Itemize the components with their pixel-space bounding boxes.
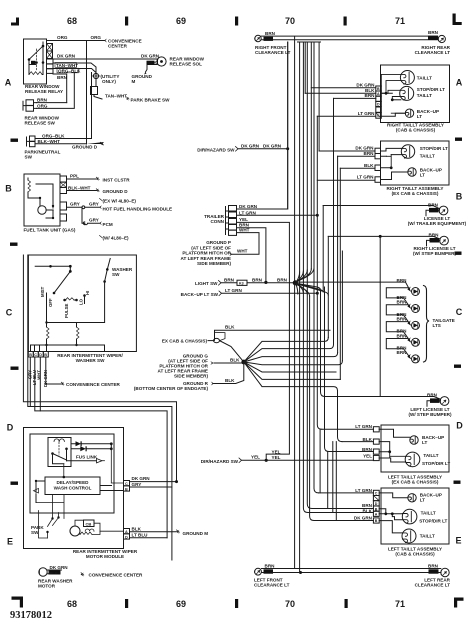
svg-text:CLEARANCE LT: CLEARANCE LT [415, 50, 451, 55]
svg-text:C: C [6, 308, 13, 318]
svg-text:LT: LT [417, 114, 422, 119]
svg-text:BRN: BRN [362, 447, 373, 452]
svg-text:STOP/DIR LT: STOP/DIR LT [420, 146, 448, 151]
svg-text:BRN: BRN [252, 277, 263, 282]
svg-text:BRN: BRN [57, 75, 68, 80]
svg-text:PULSE: PULSE [64, 304, 69, 318]
svg-text:DK GRN: DK GRN [241, 143, 260, 148]
svg-text:LT GRN: LT GRN [357, 175, 374, 180]
svg-text:PLATFORM HITCH OR: PLATFORM HITCH OR [182, 251, 231, 256]
svg-text:68: 68 [67, 599, 77, 609]
svg-text:FUEL TANK UNIT (GAS): FUEL TANK UNIT (GAS) [24, 228, 76, 233]
svg-text:93178012: 93178012 [10, 610, 52, 621]
svg-text:YEL: YEL [272, 455, 281, 460]
svg-text:BRN: BRN [239, 222, 250, 227]
svg-text:WHT: WHT [239, 228, 250, 233]
svg-text:SW: SW [112, 272, 120, 277]
svg-text:LT GRN: LT GRN [358, 111, 375, 116]
svg-text:BLK–WHT: BLK–WHT [38, 139, 61, 144]
svg-text:BRN: BRN [397, 278, 408, 283]
svg-text:DK GRN: DK GRN [239, 204, 258, 209]
svg-text:MOTOR: MOTOR [38, 584, 56, 589]
svg-text:CLEARANCE LT: CLEARANCE LT [415, 583, 451, 588]
svg-text:BLK: BLK [148, 60, 158, 65]
svg-text:A: A [377, 92, 380, 96]
svg-text:B: B [44, 353, 47, 357]
svg-text:B: B [375, 507, 378, 511]
svg-text:LT: LT [420, 173, 425, 178]
svg-text:BRN: BRN [428, 564, 439, 569]
svg-text:CONVENIENCE CENTER: CONVENIENCE CENTER [89, 573, 144, 578]
svg-text:SIDE MEMBER): SIDE MEMBER) [197, 261, 231, 266]
svg-text:D: D [375, 502, 378, 506]
svg-text:LT GRN: LT GRN [355, 488, 372, 493]
svg-text:BRN: BRN [429, 232, 440, 237]
svg-text:LT GRN: LT GRN [225, 288, 242, 293]
svg-text:BRN: BRN [224, 277, 235, 282]
svg-text:EX CAB & CHASSIS): EX CAB & CHASSIS) [162, 339, 208, 344]
svg-text:A: A [125, 530, 128, 534]
svg-text:C: C [377, 114, 380, 118]
svg-text:LT GRN: LT GRN [355, 424, 372, 429]
svg-text:STOP/DIR LT: STOP/DIR LT [419, 519, 447, 524]
svg-text:D: D [39, 353, 42, 357]
svg-text:B: B [5, 184, 12, 194]
svg-text:68: 68 [67, 16, 77, 26]
svg-text:GRY: GRY [89, 218, 99, 223]
svg-text:LIGHT SW: LIGHT SW [195, 281, 218, 286]
svg-text:BRN: BRN [364, 151, 375, 156]
svg-text:B: B [29, 353, 32, 357]
svg-text:DK GRN: DK GRN [263, 143, 282, 148]
svg-text:BRN: BRN [37, 98, 48, 103]
svg-text:SW: SW [31, 530, 39, 535]
svg-text:STOP/DIR LT: STOP/DIR LT [422, 461, 450, 466]
svg-text:DK GRN: DK GRN [132, 476, 151, 481]
svg-text:CONVENIENCE CENTER: CONVENIENCE CENTER [66, 382, 121, 387]
svg-text:DK GRN: DK GRN [57, 54, 76, 59]
svg-text:DELAY/SPEED: DELAY/SPEED [57, 480, 90, 485]
svg-text:TAILLT: TAILLT [421, 511, 436, 516]
svg-text:DK GRN: DK GRN [50, 565, 69, 570]
svg-text:C: C [456, 307, 463, 317]
svg-text:OFF: OFF [48, 298, 53, 307]
svg-text:LTS: LTS [433, 323, 441, 328]
svg-text:BRN: BRN [397, 350, 408, 355]
svg-text:DIR/HAZARD SW: DIR/HAZARD SW [197, 147, 235, 152]
svg-text:BLK: BLK [364, 163, 374, 168]
svg-text:WHT: WHT [237, 249, 248, 254]
svg-text:A: A [456, 78, 463, 88]
svg-text:A: A [375, 513, 378, 517]
svg-text:RELEASE SOL: RELEASE SOL [170, 62, 203, 67]
svg-text:E: E [455, 536, 461, 546]
svg-text:BLK: BLK [363, 437, 373, 442]
svg-text:GRY: GRY [132, 482, 142, 487]
svg-text:ORG: ORG [37, 103, 48, 108]
svg-text:TAILLT: TAILLT [417, 76, 432, 81]
svg-text:INST CLSTR: INST CLSTR [103, 178, 131, 183]
svg-text:(W/ TRAILER EQUIPMENT): (W/ TRAILER EQUIPMENT) [408, 221, 467, 226]
svg-text:MOTOR MODULE: MOTOR MODULE [86, 554, 124, 559]
svg-text:SW: SW [25, 155, 33, 160]
svg-text:ONLY): ONLY) [102, 79, 116, 84]
svg-text:RELEASE RELAY: RELEASE RELAY [25, 89, 63, 94]
svg-text:BLK–WHT: BLK–WHT [68, 186, 91, 191]
svg-text:M: M [132, 79, 136, 84]
svg-text:PPL: PPL [70, 174, 79, 179]
svg-text:BRN: BRN [365, 93, 376, 98]
svg-text:TAILLT: TAILLT [423, 453, 438, 458]
svg-text:LT: LT [422, 440, 427, 445]
svg-text:BRN: BRN [428, 30, 439, 35]
svg-text:TAILLT: TAILLT [417, 93, 432, 98]
svg-text:YEL: YEL [272, 449, 281, 454]
svg-text:GRY: GRY [70, 202, 80, 207]
svg-text:D: D [456, 421, 463, 431]
svg-text:ORG–BLK: ORG–BLK [42, 133, 65, 138]
svg-text:BRN: BRN [427, 393, 438, 398]
svg-text:DK GRN: DK GRN [141, 54, 160, 59]
svg-text:CLEARANCE LT: CLEARANCE LT [255, 50, 291, 55]
svg-text:BRN: BRN [397, 317, 408, 322]
svg-text:WASH CONTROL: WASH CONTROL [54, 486, 92, 491]
svg-text:TAN–WHT: TAN–WHT [56, 63, 78, 68]
svg-text:(EX CAB & CHASSIS): (EX CAB & CHASSIS) [392, 480, 439, 485]
svg-text:GROUND M: GROUND M [183, 531, 209, 536]
svg-text:LT BLU: LT BLU [132, 533, 149, 538]
svg-text:C: C [125, 482, 128, 486]
svg-text:LT GRN: LT GRN [239, 210, 256, 215]
svg-text:71: 71 [395, 599, 405, 609]
svg-text:(EX W/ 4L80–E): (EX W/ 4L80–E) [103, 199, 137, 204]
svg-text:BLK: BLK [225, 325, 235, 330]
svg-text:AT LEFT REAR FRAME: AT LEFT REAR FRAME [181, 256, 231, 261]
svg-text:SIDE MEMBER): SIDE MEMBER) [174, 373, 208, 378]
svg-text:C: C [34, 353, 37, 357]
svg-text:LO: LO [79, 298, 84, 305]
svg-text:FUS LINK: FUS LINK [76, 455, 98, 460]
svg-text:GROUND P: GROUND P [206, 240, 231, 245]
svg-text:HI: HI [85, 291, 90, 295]
svg-text:B: B [456, 192, 463, 202]
svg-text:CONN: CONN [210, 219, 224, 224]
svg-text:ORG–BLK: ORG–BLK [58, 68, 81, 73]
svg-text:BLK: BLK [225, 378, 235, 383]
svg-text:WASHER SW: WASHER SW [76, 358, 106, 363]
svg-text:BLK: BLK [50, 570, 58, 575]
svg-text:TAILLT: TAILLT [420, 534, 435, 539]
svg-text:(BOTTOM CENTER OF ENDGATE): (BOTTOM CENTER OF ENDGATE) [134, 386, 209, 391]
svg-text:BRN: BRN [397, 334, 408, 339]
svg-text:BLK: BLK [363, 508, 373, 513]
svg-text:69: 69 [176, 599, 186, 609]
svg-text:(CAB & CHASSIS): (CAB & CHASSIS) [395, 552, 435, 557]
svg-text:BACK–UP LT SW: BACK–UP LT SW [181, 292, 219, 297]
svg-text:BRN: BRN [428, 202, 439, 207]
svg-text:D: D [377, 103, 380, 107]
svg-text:DIR/HAZARD SW: DIR/HAZARD SW [201, 459, 239, 464]
svg-text:MIST: MIST [40, 286, 45, 297]
svg-text:LT: LT [420, 498, 425, 503]
svg-text:BRN: BRN [265, 31, 276, 36]
svg-text:A: A [5, 78, 12, 88]
svg-text:BRN: BRN [397, 300, 408, 305]
svg-text:C: C [375, 492, 378, 496]
svg-text:CB: CB [86, 522, 92, 527]
svg-text:BRN: BRN [265, 563, 276, 568]
svg-text:PCM: PCM [103, 222, 113, 227]
svg-text:YEL: YEL [363, 453, 372, 458]
svg-text:B: B [377, 87, 380, 91]
svg-text:E: E [7, 537, 13, 547]
svg-text:CENTER: CENTER [108, 44, 128, 49]
svg-text:(W/ STEP BUMPER): (W/ STEP BUMPER) [413, 251, 457, 256]
svg-text:K3: K3 [239, 281, 244, 285]
svg-text:71: 71 [395, 16, 405, 26]
svg-text:B: B [375, 519, 378, 523]
svg-text:DK GRN: DK GRN [354, 516, 373, 521]
svg-text:B: B [125, 487, 128, 491]
svg-text:GROUND D: GROUND D [72, 145, 98, 150]
svg-text:(AT LEFT SIDE OF: (AT LEFT SIDE OF [191, 245, 231, 250]
svg-text:HOT FUEL HANDLING MODULE: HOT FUEL HANDLING MODULE [103, 207, 173, 212]
svg-text:(CAB & CHASSIS): (CAB & CHASSIS) [396, 128, 436, 133]
svg-text:DK GRN: DK GRN [356, 83, 375, 88]
svg-text:BRN: BRN [277, 277, 288, 282]
svg-text:YEL: YEL [251, 454, 260, 459]
svg-text:PARK BRAKE SW: PARK BRAKE SW [131, 98, 171, 103]
svg-text:STOP/DIR LT: STOP/DIR LT [417, 87, 445, 92]
svg-text:ORG: ORG [57, 35, 68, 40]
svg-text:RELEASE SW: RELEASE SW [25, 121, 56, 126]
svg-text:CLEARANCE LT: CLEARANCE LT [254, 583, 290, 588]
svg-text:(W/ STEP BUMPER): (W/ STEP BUMPER) [408, 412, 452, 417]
svg-text:(EX CAB & CHASSIS): (EX CAB & CHASSIS) [392, 191, 439, 196]
svg-text:GROUND D: GROUND D [103, 189, 129, 194]
svg-text:BLK: BLK [230, 357, 240, 362]
svg-text:ORG: ORG [91, 35, 102, 40]
svg-text:DK GRN: DK GRN [355, 146, 374, 151]
svg-text:GRY: GRY [89, 202, 99, 207]
svg-text:69: 69 [176, 16, 186, 26]
svg-text:TAN–WHT: TAN–WHT [105, 94, 127, 99]
svg-text:(W/ 4L80–E): (W/ 4L80–E) [103, 236, 130, 241]
svg-text:70: 70 [285, 16, 295, 26]
svg-text:YEL: YEL [239, 217, 248, 222]
svg-text:BLK: BLK [132, 526, 142, 531]
svg-text:D: D [7, 423, 14, 433]
svg-text:70: 70 [285, 599, 295, 609]
svg-text:TAILLT: TAILLT [420, 154, 435, 159]
svg-text:D: D [125, 535, 128, 539]
